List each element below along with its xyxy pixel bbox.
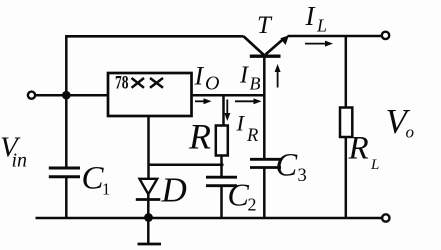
svg-text:I: I bbox=[236, 111, 246, 136]
svg-text:O: O bbox=[205, 73, 219, 95]
svg-text:B: B bbox=[250, 74, 261, 94]
svg-text:R: R bbox=[348, 131, 369, 167]
svg-text:3: 3 bbox=[298, 166, 307, 186]
svg-text:78: 78 bbox=[115, 73, 129, 94]
svg-text:T: T bbox=[257, 12, 273, 39]
svg-text:L: L bbox=[370, 157, 379, 173]
svg-text:I: I bbox=[194, 62, 205, 91]
svg-text:o: o bbox=[406, 123, 415, 142]
svg-text:D: D bbox=[161, 171, 187, 210]
svg-text:C: C bbox=[276, 148, 298, 184]
svg-text:R: R bbox=[188, 117, 211, 157]
svg-text:R: R bbox=[246, 126, 258, 146]
svg-text:L: L bbox=[316, 16, 327, 36]
svg-text:in: in bbox=[12, 150, 28, 172]
svg-text:I: I bbox=[305, 1, 317, 31]
svg-text:I: I bbox=[239, 63, 249, 89]
svg-text:C: C bbox=[228, 177, 250, 213]
svg-text:2: 2 bbox=[248, 195, 257, 215]
svg-text:1: 1 bbox=[102, 180, 110, 199]
